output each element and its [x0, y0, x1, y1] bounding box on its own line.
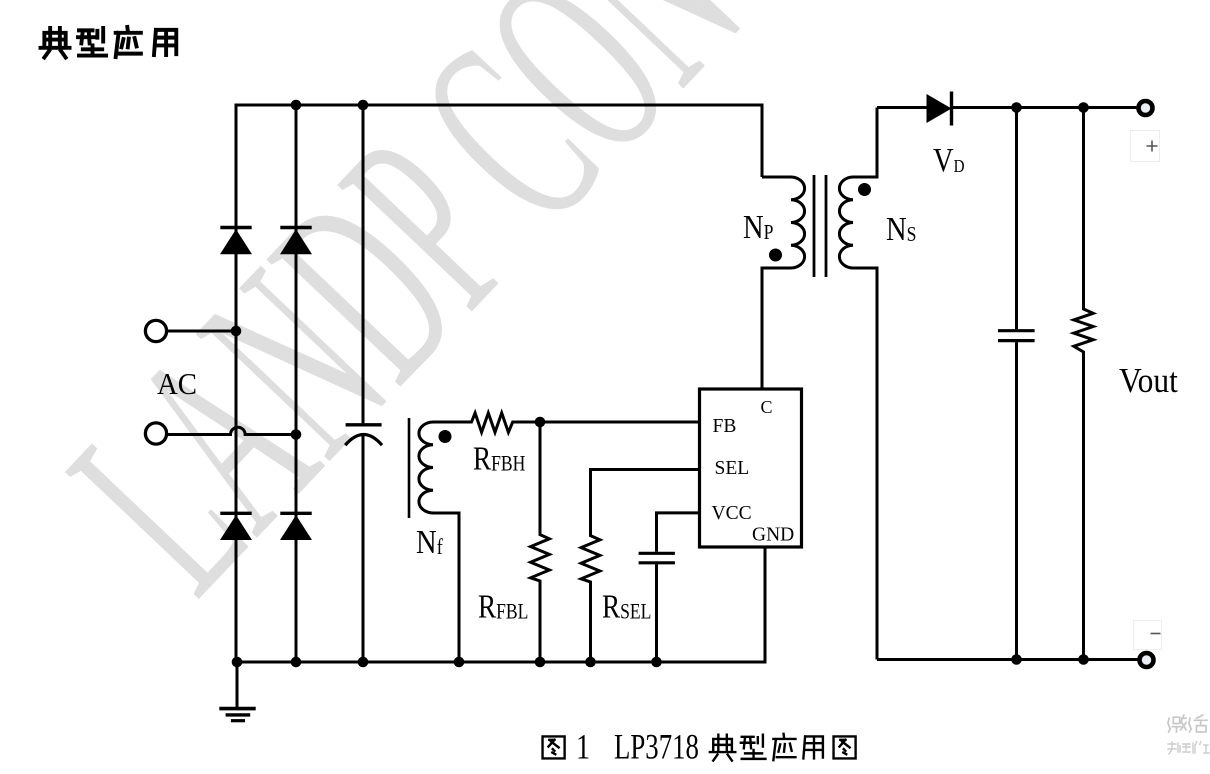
svg-text:Nf: Nf [416, 523, 443, 561]
svg-text:NS: NS [886, 210, 916, 248]
svg-text:LANDP CON: LANDP CON [14, 0, 796, 645]
svg-text:GND: GND [752, 525, 794, 546]
svg-text:FB: FB [713, 416, 737, 437]
svg-text:Vout: Vout [1119, 362, 1179, 401]
svg-text:SEL: SEL [715, 458, 750, 479]
svg-text:RSEL: RSEL [602, 588, 651, 626]
svg-text:NP: NP [743, 208, 773, 246]
svg-text:LP3718: LP3718 [614, 727, 699, 767]
svg-text:AC: AC [157, 367, 197, 401]
svg-text:VD: VD [933, 141, 965, 179]
svg-text:C: C [761, 397, 773, 417]
svg-text:RFBH: RFBH [473, 440, 525, 478]
svg-text:RFBL: RFBL [478, 588, 528, 626]
svg-text:1: 1 [576, 726, 590, 766]
svg-text:VCC: VCC [712, 503, 752, 524]
